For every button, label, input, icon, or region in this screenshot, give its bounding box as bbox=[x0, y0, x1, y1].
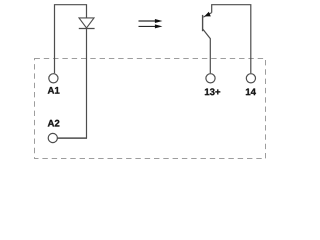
terminal A1 bbox=[49, 74, 58, 83]
coupling arrow 2 (light, lower) bbox=[139, 24, 163, 28]
transistor emitter arrowhead bbox=[204, 12, 211, 17]
wire: diode cathode down to A2 level bbox=[86, 29, 88, 139]
wire: A1 terminal up and across to diode anode bbox=[55, 5, 87, 74]
label A2 bbox=[48, 120, 60, 127]
dashed enclosure (module outline) bbox=[35, 59, 266, 159]
coupling arrow 1 (light, upper) bbox=[139, 19, 163, 23]
wire: horizontal to A2 terminal bbox=[57, 137, 87, 139]
terminal 13+ bbox=[206, 74, 215, 83]
diode D (input LED) bbox=[79, 18, 94, 28]
diode cathode bar bbox=[79, 28, 95, 30]
terminal A2 bbox=[48, 133, 57, 142]
transistor Q (output, base bar) bbox=[202, 15, 204, 31]
terminal 14 bbox=[246, 74, 255, 83]
label 13+ bbox=[205, 88, 220, 95]
transistor upper lead diagonal bbox=[203, 13, 211, 18]
label A1 bbox=[48, 87, 60, 94]
wire: transistor top lead across to terminal 14 bbox=[212, 5, 251, 74]
label 14 bbox=[246, 89, 256, 96]
transistor lower lead diagonal bbox=[203, 29, 210, 73]
